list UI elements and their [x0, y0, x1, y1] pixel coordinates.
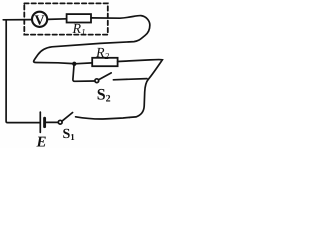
wire: left vertical from top-left corner down to bottom wire: [3, 20, 39, 123]
wire: voltmeter to resistor R1: [47, 18, 66, 21]
battery E long plate (positive): [39, 112, 41, 132]
svg-text:E: E: [36, 135, 47, 149]
dashed enclosure box around voltmeter and R1: [24, 3, 108, 34]
voltmeter U1 (V): [32, 12, 47, 27]
svg-text:V: V: [35, 13, 45, 28]
svg-text:R1: R1: [72, 22, 86, 37]
wire: junction to resistor R2: [74, 62, 92, 65]
wire: S2 right terminal to right-side descent: [113, 79, 147, 80]
switch S1 pivot: [58, 120, 62, 124]
wire: R1 to hairpin turn at top right, returning left and curving down to the middle wire: [34, 16, 150, 64]
node junction dot: [72, 62, 76, 66]
battery E short thick plate (negative): [43, 118, 46, 127]
wire: S1 right terminal along the bottom to the right-side descent: [76, 117, 130, 119]
resistor R2: [92, 58, 117, 66]
switch S2 lever: [99, 73, 112, 80]
switch S2 pivot: [95, 79, 99, 83]
resistor R1: [67, 14, 91, 22]
svg-text:S1: S1: [63, 127, 76, 142]
svg-text:S2: S2: [97, 87, 111, 105]
wire: junction down and across to switch S2: [73, 64, 95, 82]
wire: battery to switch S1: [46, 121, 58, 123]
svg-text:R2: R2: [95, 46, 110, 61]
wire: R2 right side, then descending along the right edge to the bottom wire: [118, 60, 163, 118]
switch S1 lever: [62, 113, 73, 122]
